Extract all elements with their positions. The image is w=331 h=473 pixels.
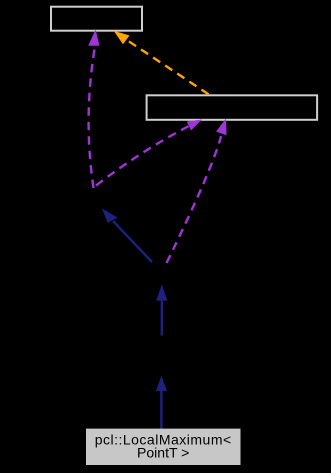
node box pcl::LocalMaximum (current class, gray filled) <box>86 429 241 465</box>
arrowhead of diagonal inheritance edge <box>102 208 118 222</box>
node box top (empty class node) <box>51 7 142 31</box>
svg-text:PointT >: PointT > <box>137 444 189 460</box>
inheritance edge A (blue solid vertical, pcl::LocalMaximum to node G) <box>160 391 162 429</box>
usage edge c (dashed purple, node F to right box) <box>167 136 222 263</box>
arrowhead of inheritance edge A <box>156 376 167 391</box>
node box right (empty class node) <box>147 95 318 120</box>
arrowhead of orange edge <box>114 31 130 44</box>
inheritance edge diagonal (blue solid, node F to node P) <box>113 221 152 262</box>
usage edge a (dashed purple, node P to top box) <box>89 46 95 188</box>
arrowhead of edge b <box>187 120 202 131</box>
inheritance edge B (blue solid vertical, node G to node F) <box>161 301 163 336</box>
arrowhead of edge a <box>88 30 99 46</box>
arrowhead of inheritance edge B <box>156 285 167 301</box>
usage edge b (dashed purple, node P to right box) <box>96 126 189 186</box>
arrowhead of edge c <box>216 119 227 136</box>
template instantiation edge (dashed orange, right box to top box) <box>126 39 209 94</box>
